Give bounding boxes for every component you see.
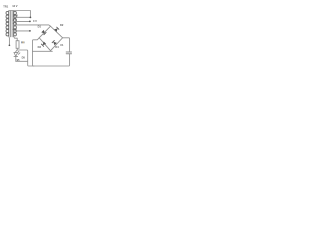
svg-text:12 V: 12 V — [12, 4, 18, 8]
svg-text:0 V: 0 V — [33, 19, 37, 23]
wire secondary bottom to fuse — [14, 37, 18, 41]
svg-text:0 V: 0 V — [13, 27, 17, 31]
transformer TR1 primary winding — [6, 11, 9, 37]
junction dot tap 8V — [29, 21, 31, 23]
svg-text:D5: D5 — [22, 56, 26, 60]
wire LED return to bottom rail — [16, 50, 70, 66]
wire primary bottom lead — [8, 37, 11, 46]
wire right vertex to capacitor — [63, 38, 70, 52]
LED arrows — [17, 51, 20, 54]
svg-text:D4: D4 — [55, 45, 59, 49]
svg-text:D2: D2 — [60, 23, 64, 27]
wire tap 8V — [14, 20, 30, 22]
transformer secondary winding — [14, 11, 17, 37]
diode D4 — [52, 40, 57, 45]
diode D1 — [41, 30, 46, 35]
fuse F1 box — [16, 41, 19, 49]
terminal dot mains lead — [9, 44, 11, 46]
svg-text:D3: D3 — [38, 45, 42, 49]
wire fuse to LED — [16, 48, 17, 52]
svg-text:TR1: TR1 — [3, 4, 8, 8]
wire bottom vertex rail to join — [33, 50, 53, 53]
junction dot tap 0V — [29, 30, 31, 32]
wire tap 4V to bridge AC input — [14, 25, 51, 26]
wire tap 12V — [14, 16, 30, 18]
junction dot selector top — [30, 17, 32, 19]
svg-text:8 V: 8 V — [13, 18, 17, 22]
transformer core — [11, 11, 13, 37]
svg-text:4 V: 4 V — [13, 21, 17, 25]
diode D3 — [41, 41, 46, 46]
svg-text:C1: C1 — [60, 43, 64, 47]
capacitor C1 plates — [66, 52, 71, 54]
colored mark near fuse — [21, 41, 22, 43]
wire tap 0V — [14, 30, 30, 32]
wire left vertex down to bottom rail — [33, 38, 40, 66]
svg-text:12 V: 12 V — [13, 14, 19, 18]
LED D5 triangle — [14, 53, 18, 62]
wire winding top to selector bus — [9, 11, 31, 17]
svg-text:D1: D1 — [38, 25, 42, 29]
diode D2 — [54, 27, 59, 32]
bridge rectifier diamond — [39, 26, 62, 51]
